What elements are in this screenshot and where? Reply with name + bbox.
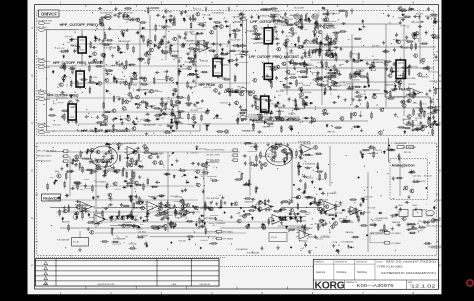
svg-text:C26 100p: C26 100p bbox=[239, 215, 247, 217]
svg-text:PTB: PTB bbox=[56, 172, 61, 174]
svg-text:EA30356: EA30356 bbox=[210, 160, 218, 163]
svg-text:R13 10K: R13 10K bbox=[369, 148, 377, 150]
svg-text:MARK: MARK bbox=[43, 283, 49, 286]
svg-text:R.S.EA303: R.S.EA303 bbox=[216, 222, 225, 225]
svg-text:'12.1.02: '12.1.02 bbox=[410, 283, 437, 288]
svg-text:R22 47K: R22 47K bbox=[315, 223, 323, 225]
svg-text:EA30356: EA30356 bbox=[62, 221, 70, 224]
svg-text:EA30356: EA30356 bbox=[276, 110, 284, 113]
svg-text:R13 10K: R13 10K bbox=[426, 216, 434, 218]
svg-text:R13 2.2K: R13 2.2K bbox=[151, 196, 160, 198]
svg-text:R13_BUFTRM: R13_BUFTRM bbox=[158, 109, 171, 111]
svg-text:R13 2.2K: R13 2.2K bbox=[434, 226, 443, 228]
svg-text:R13_BUFTRM: R13_BUFTRM bbox=[118, 225, 131, 227]
svg-text:R.S.KIA4558S: R.S.KIA4558S bbox=[247, 252, 260, 255]
svg-text:D: D bbox=[439, 170, 441, 173]
svg-text:R22 47K: R22 47K bbox=[203, 15, 211, 17]
svg-text:R13 2.2K: R13 2.2K bbox=[276, 91, 285, 93]
svg-text:HPF_CUTOFF_FREQ: HPF_CUTOFF_FREQ bbox=[60, 22, 98, 27]
svg-text:KIA4558S: KIA4558S bbox=[327, 27, 336, 30]
svg-text:2SC4116: 2SC4116 bbox=[196, 49, 204, 51]
svg-text:EA30356: EA30356 bbox=[346, 221, 354, 224]
svg-text:R22 47K: R22 47K bbox=[346, 84, 354, 86]
svg-text:MS-20 mini(V-70Z50): MS-20 mini(V-70Z50) bbox=[386, 262, 437, 264]
svg-text:R13 10K: R13 10K bbox=[368, 207, 376, 209]
svg-text:REVISED BY: REVISED BY bbox=[200, 284, 212, 286]
svg-text:KIA4558S: KIA4558S bbox=[297, 219, 306, 222]
svg-text:HPF_FREQ: HPF_FREQ bbox=[37, 27, 47, 29]
svg-text:R22 47K: R22 47K bbox=[416, 14, 424, 16]
svg-text:EA30356: EA30356 bbox=[200, 59, 208, 62]
svg-text:LPF_CUTOFF_FREQ_MG/T.EXT: LPF_CUTOFF_FREQ_MG/T.EXT bbox=[249, 55, 300, 59]
svg-text:KIA4558S: KIA4558S bbox=[245, 201, 254, 204]
svg-text:C14 0.1u: C14 0.1u bbox=[194, 9, 202, 11]
svg-text:C26 100p: C26 100p bbox=[303, 92, 311, 94]
svg-text:Nishijima: Nishijima bbox=[337, 271, 347, 274]
svg-text:C26 100p: C26 100p bbox=[260, 28, 268, 30]
svg-text:K00—A30976: K00—A30976 bbox=[357, 283, 395, 288]
svg-text:DATE: DATE bbox=[172, 283, 177, 286]
svg-text:KIA4558S: KIA4558S bbox=[255, 42, 264, 45]
svg-text:SCHEMATIC DIAGRAM(VCF): SCHEMATIC DIAGRAM(VCF) bbox=[381, 271, 436, 275]
svg-text:R13 10K: R13 10K bbox=[179, 241, 187, 243]
svg-text:DESIGNED BY: DESIGNED BY bbox=[335, 262, 348, 264]
svg-text:CHECKED BY: CHECKED BY bbox=[356, 262, 368, 264]
svg-text:R13_BUFTRM: R13_BUFTRM bbox=[120, 13, 133, 15]
svg-text:R13 10K: R13 10K bbox=[188, 86, 196, 88]
svg-text:SL2-1/16W: SL2-1/16W bbox=[294, 8, 304, 10]
svg-text:R22 47K: R22 47K bbox=[372, 46, 380, 48]
svg-text:OldVCF: OldVCF bbox=[41, 12, 57, 17]
svg-text:R.S.EA303: R.S.EA303 bbox=[93, 207, 102, 210]
svg-text:R13_BUFTRM: R13_BUFTRM bbox=[100, 13, 113, 15]
svg-text:KIA4558S: KIA4558S bbox=[396, 59, 405, 62]
svg-text:KIA4558S: KIA4558S bbox=[290, 14, 299, 17]
svg-text:2SC4116: 2SC4116 bbox=[246, 30, 254, 32]
svg-text:LPF_CUTOFF_FREQ: LPF_CUTOFF_FREQ bbox=[250, 19, 288, 24]
svg-text:EA30356: EA30356 bbox=[141, 235, 149, 238]
svg-text:Nishijima: Nishijima bbox=[357, 271, 367, 274]
svg-text:KORG: KORG bbox=[315, 280, 346, 291]
svg-text:Iwamura: Iwamura bbox=[316, 271, 326, 274]
svg-text:R13_BUFTRM: R13_BUFTRM bbox=[77, 158, 90, 160]
svg-text:R13 2.2K: R13 2.2K bbox=[365, 197, 374, 199]
svg-text:SL2-1/16W: SL2-1/16W bbox=[231, 39, 241, 41]
svg-text:EA30356: EA30356 bbox=[421, 76, 429, 79]
svg-text:UH-12: UH-12 bbox=[412, 205, 417, 207]
svg-text:R13 2.2K: R13 2.2K bbox=[203, 87, 212, 89]
svg-text:R.S.KIA4558S: R.S.KIA4558S bbox=[249, 114, 262, 117]
svg-text:EA30356: EA30356 bbox=[302, 52, 310, 55]
svg-text:R.S.EA303: R.S.EA303 bbox=[264, 75, 273, 78]
svg-text:DRAWN BY: DRAWN BY bbox=[315, 261, 325, 264]
svg-text:SL2-1/16W: SL2-1/16W bbox=[406, 78, 416, 80]
svg-text:EA30356: EA30356 bbox=[419, 209, 427, 212]
svg-text:2SC4116: 2SC4116 bbox=[305, 177, 313, 179]
svg-text:R.S.KIA4558S: R.S.KIA4558S bbox=[104, 47, 117, 50]
svg-text:R.S.KIA4558S: R.S.KIA4558S bbox=[113, 238, 126, 241]
svg-text:2SC4116: 2SC4116 bbox=[427, 114, 435, 116]
svg-text:IC4 B: IC4 B bbox=[73, 242, 79, 244]
svg-text:HPF_PEAK1: HPF_PEAK1 bbox=[223, 231, 233, 234]
svg-text:EA30356: EA30356 bbox=[392, 221, 400, 224]
svg-text:IC6 B: IC6 B bbox=[271, 237, 277, 239]
svg-text:SL2-1/16W: SL2-1/16W bbox=[185, 32, 195, 34]
svg-text:R22 47K: R22 47K bbox=[211, 43, 219, 45]
svg-text:R.S.KIA4558S: R.S.KIA4558S bbox=[341, 241, 354, 244]
svg-text:R13_BUFTRM: R13_BUFTRM bbox=[124, 85, 137, 87]
svg-text:C14 0.1u: C14 0.1u bbox=[316, 179, 324, 181]
svg-text:SL2-1/16W: SL2-1/16W bbox=[284, 202, 294, 204]
svg-text:R.S.EA303: R.S.EA303 bbox=[96, 181, 105, 184]
svg-text:KIA4558S: KIA4558S bbox=[402, 118, 411, 121]
svg-text:R13 10K: R13 10K bbox=[220, 102, 228, 104]
svg-text:R13 2.2K: R13 2.2K bbox=[57, 48, 66, 50]
svg-text:R13_BUFTRM: R13_BUFTRM bbox=[130, 161, 143, 163]
svg-text:EA30356: EA30356 bbox=[185, 40, 193, 43]
svg-text:R13 10K: R13 10K bbox=[83, 211, 91, 213]
svg-text:R.S.KIA4558S: R.S.KIA4558S bbox=[212, 11, 225, 14]
svg-text:R.S.KIA4558S: R.S.KIA4558S bbox=[303, 162, 316, 165]
svg-text:R.S._BUFTRM: R.S._BUFTRM bbox=[371, 234, 383, 236]
svg-text:2SC4116: 2SC4116 bbox=[107, 169, 115, 171]
svg-text:R13 2.2K: R13 2.2K bbox=[289, 158, 298, 160]
svg-text:R22 47K: R22 47K bbox=[352, 80, 360, 82]
svg-text:D: D bbox=[31, 170, 33, 173]
svg-text:HPF_EXT: HPF_EXT bbox=[37, 64, 46, 66]
svg-text:R.S.KIA4558S: R.S.KIA4558S bbox=[371, 61, 384, 64]
svg-text:R22 47K: R22 47K bbox=[408, 84, 416, 86]
svg-text:R13_BUFTRM: R13_BUFTRM bbox=[242, 131, 255, 133]
svg-text:C14 0.1u: C14 0.1u bbox=[272, 11, 280, 13]
svg-text:R13_BUFTRM: R13_BUFTRM bbox=[425, 16, 438, 18]
svg-text:R22 47K: R22 47K bbox=[189, 74, 197, 76]
svg-text:LPF_PEAK2: LPF_PEAK2 bbox=[391, 242, 401, 245]
svg-text:REVISION RECORD: REVISION RECORD bbox=[98, 284, 116, 286]
svg-text:UH-6: UH-6 bbox=[398, 205, 402, 207]
svg-text:R13_BUFTRM: R13_BUFTRM bbox=[206, 198, 219, 200]
svg-text:R.S.KIA4558S: R.S.KIA4558S bbox=[57, 239, 70, 242]
svg-text:C26 100p: C26 100p bbox=[413, 176, 421, 178]
svg-text:C14 0.1u: C14 0.1u bbox=[235, 21, 243, 23]
svg-text:LPF_PEAK1: LPF_PEAK1 bbox=[391, 232, 401, 235]
svg-text:R13 10K: R13 10K bbox=[415, 118, 423, 120]
svg-text:C14 0.1u: C14 0.1u bbox=[402, 71, 410, 73]
svg-text:R22 47K: R22 47K bbox=[404, 152, 412, 154]
svg-text:LA_BUFTRM: LA_BUFTRM bbox=[395, 142, 407, 145]
svg-text:R13_BUFTRM: R13_BUFTRM bbox=[309, 49, 322, 51]
svg-text:2SC4116: 2SC4116 bbox=[295, 83, 303, 85]
svg-text:R.S.EA303: R.S.EA303 bbox=[327, 192, 336, 195]
svg-text:R22 47K: R22 47K bbox=[435, 200, 443, 202]
svg-text:HPF_MG_T.EXT1: HPF_MG_T.EXT1 bbox=[37, 156, 51, 158]
svg-text:2SC4116: 2SC4116 bbox=[303, 144, 311, 146]
svg-text:C26 100p: C26 100p bbox=[138, 232, 146, 234]
svg-text:R13_BUFTRM: R13_BUFTRM bbox=[430, 81, 443, 83]
svg-text:EA30356: EA30356 bbox=[346, 231, 354, 234]
svg-text:R13 2.2K: R13 2.2K bbox=[426, 226, 435, 228]
svg-text:HPF_FRQ2: HPF_FRQ2 bbox=[37, 90, 46, 92]
svg-text:TYPE KLM-3062: TYPE KLM-3062 bbox=[377, 267, 404, 269]
svg-text:R13 2.2K: R13 2.2K bbox=[209, 219, 218, 221]
svg-text:EA30356: EA30356 bbox=[274, 161, 282, 164]
svg-text:R13 2.2K: R13 2.2K bbox=[53, 125, 62, 127]
svg-text:R.S.EA303: R.S.EA303 bbox=[159, 25, 168, 28]
svg-text:EA30356: EA30356 bbox=[156, 152, 164, 155]
svg-text:SL2-1/16W: SL2-1/16W bbox=[101, 159, 111, 161]
svg-text:KIA4558S: KIA4558S bbox=[385, 84, 394, 87]
svg-text:C26 100p: C26 100p bbox=[174, 196, 182, 198]
svg-text:C26 100p: C26 100p bbox=[285, 53, 293, 55]
svg-text:EA30356: EA30356 bbox=[418, 180, 426, 183]
svg-text:2SC4116: 2SC4116 bbox=[300, 241, 308, 243]
svg-text:R13 10K: R13 10K bbox=[321, 199, 329, 201]
svg-text:EA30356: EA30356 bbox=[288, 117, 296, 120]
svg-text:LPF_MG_T.EXT1: LPF_MG_T.EXT1 bbox=[206, 155, 220, 157]
svg-text:EA30356: EA30356 bbox=[289, 32, 297, 35]
svg-text:R.S.EA303: R.S.EA303 bbox=[305, 42, 314, 45]
svg-text:R.S.EA303: R.S.EA303 bbox=[93, 212, 102, 215]
svg-text:HPF_PEAK2: HPF_PEAK2 bbox=[223, 238, 233, 241]
svg-text:LPF_CUTOFF_FREQ1: LPF_CUTOFF_FREQ1 bbox=[206, 150, 225, 152]
svg-text:KIA4558S: KIA4558S bbox=[134, 206, 143, 209]
svg-text:MODEL: MODEL bbox=[377, 261, 383, 263]
svg-text:R13 2.2K: R13 2.2K bbox=[157, 118, 166, 120]
svg-text:R.S.KIA4558S: R.S.KIA4558S bbox=[124, 142, 137, 145]
svg-text:R.S.EA30356: R.S.EA30356 bbox=[236, 248, 247, 251]
svg-text:C26 100p: C26 100p bbox=[128, 243, 136, 245]
svg-text:EA30356: EA30356 bbox=[308, 236, 316, 239]
svg-text:HPF_EG2_EXT1: HPF_EG2_EXT1 bbox=[37, 161, 51, 163]
svg-text:C14 0.1u: C14 0.1u bbox=[322, 236, 330, 238]
svg-text:R13 2.2K: R13 2.2K bbox=[424, 176, 433, 178]
svg-text:SL2-1/16W: SL2-1/16W bbox=[372, 220, 382, 222]
svg-text:R22 47K: R22 47K bbox=[328, 131, 336, 133]
svg-text:R.S.KIA4558S: R.S.KIA4558S bbox=[128, 18, 141, 21]
svg-text:C14 0.1u: C14 0.1u bbox=[191, 153, 199, 155]
svg-text:KIA4558S: KIA4558S bbox=[171, 50, 180, 53]
svg-text:R13_BUFTRM: R13_BUFTRM bbox=[431, 247, 444, 249]
svg-text:C: C bbox=[31, 122, 33, 125]
svg-text:AnalogSeCon: AnalogSeCon bbox=[392, 164, 416, 168]
svg-text:2SC4116: 2SC4116 bbox=[190, 110, 198, 112]
